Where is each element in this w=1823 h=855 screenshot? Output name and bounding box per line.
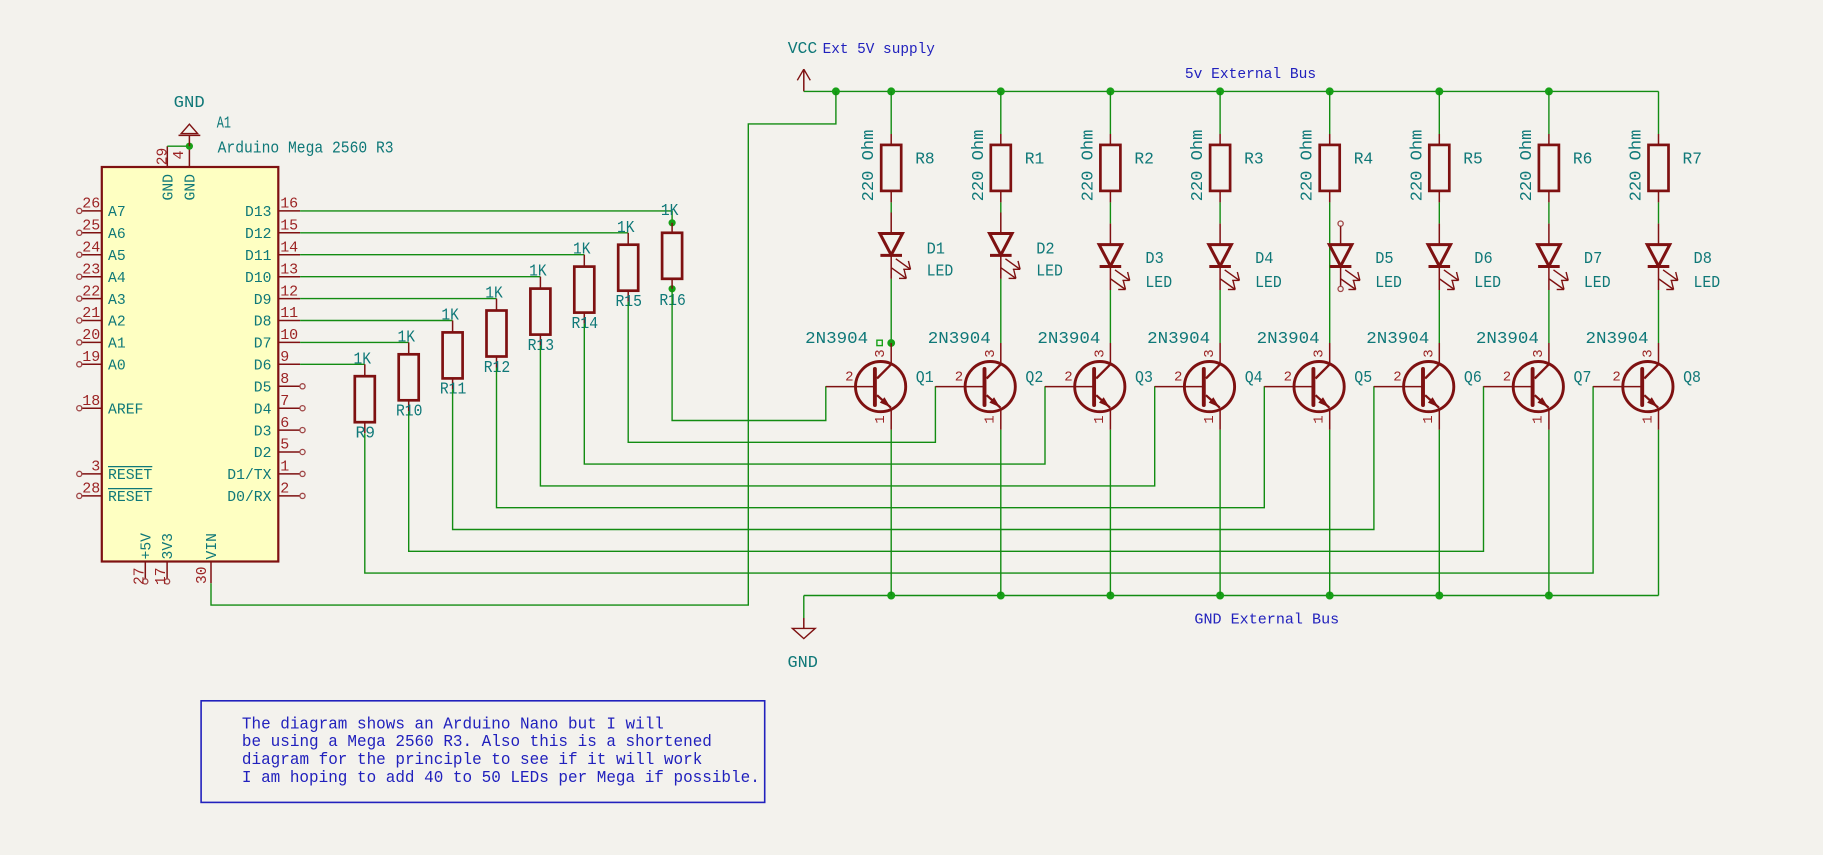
svg-text:8: 8 xyxy=(280,371,289,388)
svg-text:Q2: Q2 xyxy=(1025,369,1043,388)
svg-text:2N3904: 2N3904 xyxy=(928,330,991,349)
svg-text:4: 4 xyxy=(171,151,188,160)
svg-text:1K: 1K xyxy=(661,202,679,221)
transistor Q4 2N3904 xyxy=(1147,330,1263,430)
ground GND (bottom) xyxy=(788,618,818,673)
svg-text:3: 3 xyxy=(873,349,889,357)
svg-text:3: 3 xyxy=(1202,349,1218,357)
wire R16 to Q1 base xyxy=(672,289,826,421)
svg-text:2N3904: 2N3904 xyxy=(1037,330,1100,349)
svg-text:16: 16 xyxy=(280,196,298,213)
svg-text:9: 9 xyxy=(280,349,289,366)
LED D6 xyxy=(1428,224,1501,293)
svg-text:D2: D2 xyxy=(1036,240,1054,259)
svg-text:LED: LED xyxy=(1255,274,1282,293)
svg-text:D4: D4 xyxy=(254,401,272,418)
LED D4 xyxy=(1209,224,1282,293)
svg-text:1: 1 xyxy=(1531,415,1547,423)
svg-text:1K: 1K xyxy=(573,241,591,260)
svg-text:D13: D13 xyxy=(245,204,272,221)
svg-text:D5: D5 xyxy=(254,380,272,397)
svg-text:28: 28 xyxy=(82,481,100,498)
wire D3 to Q3 collector xyxy=(1109,290,1111,343)
svg-text:1: 1 xyxy=(873,415,889,423)
wire D6 to Q6 collector xyxy=(1438,290,1440,343)
wire D6 to R9 xyxy=(300,363,365,365)
wire bus to R2 xyxy=(1109,91,1111,134)
svg-text:GND: GND xyxy=(788,654,818,673)
svg-text:Q8: Q8 xyxy=(1683,369,1701,388)
svg-text:17: 17 xyxy=(153,568,170,586)
svg-text:220 Ohm: 220 Ohm xyxy=(1408,130,1427,202)
power VCC xyxy=(788,40,818,92)
svg-text:Q6: Q6 xyxy=(1464,369,1482,388)
junction xyxy=(1106,87,1114,95)
svg-text:22: 22 xyxy=(82,283,100,300)
svg-text:1: 1 xyxy=(280,459,289,476)
svg-text:D9: D9 xyxy=(254,292,272,309)
wire R6 to D7 xyxy=(1548,202,1550,223)
svg-text:R4: R4 xyxy=(1354,150,1374,169)
resistor R15 1K xyxy=(615,219,642,312)
wire bus to R7 xyxy=(1658,91,1660,134)
svg-text:R7: R7 xyxy=(1683,150,1703,169)
svg-text:1: 1 xyxy=(1202,415,1218,423)
resistor R13 1K xyxy=(528,263,555,356)
LED D3 xyxy=(1099,224,1172,293)
svg-text:3: 3 xyxy=(1092,349,1108,357)
svg-text:10: 10 xyxy=(280,327,298,344)
svg-text:2: 2 xyxy=(1064,369,1072,385)
LED D1 xyxy=(880,213,953,282)
svg-text:220 Ohm: 220 Ohm xyxy=(1518,130,1537,202)
svg-text:220 Ohm: 220 Ohm xyxy=(1628,130,1647,202)
wire bus to R5 xyxy=(1438,91,1440,134)
wire Q1 emitter to GND bus xyxy=(890,430,892,596)
svg-text:3: 3 xyxy=(1531,349,1547,357)
IC pin 30 VIN xyxy=(194,533,221,584)
IC A1 Arduino Mega 2560 R3 xyxy=(102,115,394,562)
wire D10 to R13 xyxy=(300,276,540,278)
svg-text:2N3904: 2N3904 xyxy=(805,330,868,349)
svg-text:Q4: Q4 xyxy=(1245,369,1263,388)
junction xyxy=(1216,87,1224,95)
svg-text:I am hoping to add 40 to 50 LE: I am hoping to add 40 to 50 LEDs per Meg… xyxy=(242,769,760,788)
svg-text:220 Ohm: 220 Ohm xyxy=(1189,130,1208,202)
svg-text:2N3904: 2N3904 xyxy=(1586,330,1649,349)
svg-text:1K: 1K xyxy=(485,285,503,304)
svg-text:D0/RX: D0/RX xyxy=(227,489,271,506)
svg-text:220 Ohm: 220 Ohm xyxy=(860,130,879,202)
svg-text:2: 2 xyxy=(1393,369,1401,385)
svg-text:1: 1 xyxy=(1312,415,1328,423)
resistor R16 1K xyxy=(659,202,686,311)
wire D2 to Q2 collector xyxy=(1000,279,1002,343)
svg-text:D7: D7 xyxy=(254,336,272,353)
svg-text:A5: A5 xyxy=(108,248,126,265)
svg-text:be using a Mega 2560 R3. Also: be using a Mega 2560 R3. Also this is a … xyxy=(242,733,712,752)
svg-text:29: 29 xyxy=(154,148,171,166)
svg-text:RESET: RESET xyxy=(108,489,152,506)
svg-text:A7: A7 xyxy=(108,204,126,221)
wire R12 to Q5 base xyxy=(497,368,1265,508)
svg-text:D3: D3 xyxy=(1145,250,1163,269)
svg-text:D3: D3 xyxy=(254,423,272,440)
svg-text:25: 25 xyxy=(82,218,100,235)
svg-text:2N3904: 2N3904 xyxy=(1366,330,1429,349)
wire R2 to D3 xyxy=(1109,202,1111,223)
IC pin 18 AREF xyxy=(77,393,144,419)
svg-text:15: 15 xyxy=(280,218,298,235)
wire bus to R6 xyxy=(1548,91,1550,134)
svg-text:D4: D4 xyxy=(1255,250,1273,269)
svg-text:1K: 1K xyxy=(354,350,372,369)
LED D5 xyxy=(1329,221,1402,293)
wire Q3 emitter to GND bus xyxy=(1109,430,1111,596)
wire D9 to R12 xyxy=(300,298,496,300)
svg-text:LED: LED xyxy=(1694,274,1721,293)
wire D13 to R16 xyxy=(300,210,672,212)
svg-text:2: 2 xyxy=(280,481,289,498)
svg-text:26: 26 xyxy=(82,196,100,213)
svg-text:VCC: VCC xyxy=(788,40,818,59)
wire R1 to D2 xyxy=(1000,202,1002,212)
transistor Q6 2N3904 xyxy=(1366,330,1482,430)
wire D1 to Q1 collector xyxy=(890,279,892,343)
svg-text:27: 27 xyxy=(131,568,148,586)
IC pin 3 RESET xyxy=(77,459,153,485)
svg-text:3: 3 xyxy=(1641,349,1657,357)
svg-text:R6: R6 xyxy=(1573,150,1593,169)
resistor R9 1K xyxy=(354,350,376,443)
junction xyxy=(887,87,895,95)
resistor R11 1K xyxy=(440,307,467,400)
svg-text:Q5: Q5 xyxy=(1354,369,1372,388)
wire D7 to Q7 collector xyxy=(1548,290,1550,343)
wire bus to R1 xyxy=(1000,91,1002,134)
svg-text:24: 24 xyxy=(82,239,100,256)
wire pin29 to pin4 xyxy=(167,145,189,147)
wire D11 to R14 xyxy=(300,254,584,256)
junction xyxy=(997,592,1005,600)
svg-text:D8: D8 xyxy=(1694,250,1712,269)
svg-text:R1: R1 xyxy=(1025,150,1045,169)
svg-text:11: 11 xyxy=(280,305,298,322)
ground GND (top) xyxy=(174,94,205,146)
svg-text:1: 1 xyxy=(983,415,999,423)
wire Q8 emitter to GND bus xyxy=(1658,430,1660,596)
resistor R8 220 Ohm xyxy=(860,130,935,203)
wire D8 to Q8 collector xyxy=(1658,290,1660,343)
IC left pins A7-A0 xyxy=(77,196,126,375)
svg-text:2: 2 xyxy=(1503,369,1511,385)
resistor R4 220 Ohm xyxy=(1299,130,1374,203)
svg-text:A4: A4 xyxy=(108,270,126,287)
wire D8 to R11 xyxy=(300,320,453,322)
svg-text:23: 23 xyxy=(82,261,100,278)
svg-text:220 Ohm: 220 Ohm xyxy=(1079,130,1098,202)
svg-text:+5V: +5V xyxy=(138,533,155,560)
IC pin 29 GND xyxy=(154,146,177,200)
svg-text:1: 1 xyxy=(1421,415,1437,423)
junction xyxy=(997,87,1005,95)
IC pin 4 GND xyxy=(171,146,199,200)
resistor R3 220 Ohm xyxy=(1189,130,1264,203)
svg-text:D11: D11 xyxy=(245,248,272,265)
dangling wire end square xyxy=(877,340,882,345)
svg-text:R8: R8 xyxy=(915,150,935,169)
svg-text:LED: LED xyxy=(1145,274,1172,293)
svg-text:D1: D1 xyxy=(927,240,945,259)
wire R7 to D8 xyxy=(1658,202,1660,223)
svg-text:D1/TX: D1/TX xyxy=(227,467,271,484)
junction xyxy=(1435,592,1443,600)
wire Q2 emitter to GND bus xyxy=(1000,430,1002,596)
wire R10 to Q7 base xyxy=(409,386,1484,551)
svg-text:1: 1 xyxy=(1092,415,1108,423)
junction xyxy=(887,592,895,600)
resistor R7 220 Ohm xyxy=(1628,130,1703,203)
IC pin 28 RESET xyxy=(77,481,153,507)
wire D4 to Q4 collector xyxy=(1219,290,1221,343)
wire VIN to 5v bus xyxy=(211,91,836,605)
IC pin 17 3V3 xyxy=(153,533,177,585)
svg-text:Q3: Q3 xyxy=(1135,369,1153,388)
svg-text:7: 7 xyxy=(280,393,289,410)
svg-text:D12: D12 xyxy=(245,226,272,243)
svg-text:3: 3 xyxy=(1421,349,1437,357)
wire R15 to Q2 base xyxy=(628,302,935,443)
svg-text:220 Ohm: 220 Ohm xyxy=(970,130,989,202)
svg-text:3: 3 xyxy=(91,459,100,476)
svg-text:2: 2 xyxy=(955,369,963,385)
svg-text:AREF: AREF xyxy=(108,401,143,418)
svg-text:LED: LED xyxy=(927,263,954,282)
svg-text:A1: A1 xyxy=(108,336,126,353)
svg-text:A2: A2 xyxy=(108,314,126,331)
wire 5v external bus xyxy=(804,90,1659,92)
svg-text:2N3904: 2N3904 xyxy=(1476,330,1539,349)
junction xyxy=(1106,592,1114,600)
svg-text:3: 3 xyxy=(983,349,999,357)
wire bus to R3 xyxy=(1219,91,1221,134)
svg-text:20: 20 xyxy=(82,327,100,344)
resistor R14 1K xyxy=(572,241,599,334)
svg-text:19: 19 xyxy=(82,349,100,366)
wire R11 to Q6 base xyxy=(453,386,1374,529)
svg-text:A6: A6 xyxy=(108,226,126,243)
wire bus to GND symbol xyxy=(803,596,805,619)
svg-text:VIN: VIN xyxy=(204,533,221,560)
wire R5 to D6 xyxy=(1438,202,1440,223)
svg-text:A3: A3 xyxy=(108,292,126,309)
svg-text:6: 6 xyxy=(280,415,289,432)
svg-text:13: 13 xyxy=(280,261,298,278)
LED D2 xyxy=(990,213,1063,282)
transistor Q1 2N3904 xyxy=(805,330,934,430)
svg-text:5: 5 xyxy=(280,437,289,454)
junction Q1 collector xyxy=(887,339,895,347)
resistor R2 220 Ohm xyxy=(1079,130,1154,203)
resistor R6 220 Ohm xyxy=(1518,130,1593,203)
svg-text:R2: R2 xyxy=(1134,150,1154,169)
junction R16 top xyxy=(669,219,676,226)
svg-text:1: 1 xyxy=(1640,415,1656,423)
svg-text:R5: R5 xyxy=(1463,150,1483,169)
note text box xyxy=(201,701,765,803)
svg-text:1K: 1K xyxy=(617,219,635,238)
resistor R10 1K xyxy=(396,328,423,421)
resistor R1 220 Ohm xyxy=(970,130,1045,203)
svg-text:D8: D8 xyxy=(254,314,272,331)
junction xyxy=(1435,87,1443,95)
svg-text:30: 30 xyxy=(194,567,211,585)
wire D7 to R10 xyxy=(300,341,409,343)
svg-text:R3: R3 xyxy=(1244,150,1264,169)
wire R4 to Q5 collector xyxy=(1329,202,1331,343)
svg-text:Ext 5V supply: Ext 5V supply xyxy=(823,41,935,58)
svg-text:D5: D5 xyxy=(1375,250,1393,269)
svg-text:The diagram shows an Arduino N: The diagram shows an Arduino Nano but I … xyxy=(242,715,664,734)
svg-text:GND: GND xyxy=(182,174,199,201)
wire Q6 emitter to GND bus xyxy=(1438,430,1440,596)
wire GND external bus xyxy=(804,595,1659,597)
svg-text:D7: D7 xyxy=(1584,250,1602,269)
svg-text:2N3904: 2N3904 xyxy=(1147,330,1210,349)
svg-text:GND: GND xyxy=(160,174,177,201)
wire R9 to Q8 base xyxy=(365,386,1593,573)
transistor Q2 2N3904 xyxy=(928,330,1044,430)
svg-text:Arduino Mega 2560 R3: Arduino Mega 2560 R3 xyxy=(218,139,394,158)
wire D12 to R15 xyxy=(300,232,628,234)
svg-text:21: 21 xyxy=(82,305,100,322)
wire R13 to Q4 base xyxy=(540,346,1154,486)
svg-text:1K: 1K xyxy=(529,263,547,282)
wire Q4 emitter to GND bus xyxy=(1219,430,1221,596)
transistor Q8 2N3904 xyxy=(1586,330,1702,430)
IC pin 27 +5V xyxy=(131,533,155,585)
svg-text:18: 18 xyxy=(82,393,100,410)
wire R16 top drop xyxy=(671,211,673,223)
svg-text:2: 2 xyxy=(1612,369,1620,385)
wire bus to R8 xyxy=(890,91,892,134)
svg-text:GND: GND xyxy=(174,94,205,113)
junction xyxy=(1216,592,1224,600)
transistor Q5 2N3904 xyxy=(1257,330,1373,430)
resistor R5 220 Ohm xyxy=(1408,130,1483,203)
svg-text:A1: A1 xyxy=(217,115,231,134)
svg-text:D6: D6 xyxy=(1474,250,1492,269)
svg-text:2: 2 xyxy=(845,369,853,385)
svg-text:LED: LED xyxy=(1474,274,1501,293)
svg-text:14: 14 xyxy=(280,239,298,256)
svg-text:LED: LED xyxy=(1375,274,1402,293)
wire Q7 emitter to GND bus xyxy=(1548,430,1550,596)
svg-text:LED: LED xyxy=(1584,274,1611,293)
svg-text:1K: 1K xyxy=(397,328,415,347)
svg-text:220 Ohm: 220 Ohm xyxy=(1299,130,1318,202)
junction R16 bottom xyxy=(669,285,676,292)
svg-text:D2: D2 xyxy=(254,445,272,462)
wire bus to R4 xyxy=(1329,91,1331,134)
svg-text:RESET: RESET xyxy=(108,467,152,484)
svg-text:2: 2 xyxy=(1174,369,1182,385)
svg-text:3V3: 3V3 xyxy=(160,533,177,560)
resistor R12 1K xyxy=(484,285,511,378)
svg-text:12: 12 xyxy=(280,283,298,300)
svg-text:D6: D6 xyxy=(254,358,272,375)
LED D7 xyxy=(1538,224,1611,293)
junction xyxy=(1545,87,1553,95)
svg-text:diagram for the principle to s: diagram for the principle to see if it w… xyxy=(242,751,702,770)
svg-text:2: 2 xyxy=(1284,369,1292,385)
svg-text:Q7: Q7 xyxy=(1574,369,1592,388)
junction xyxy=(1326,87,1334,95)
svg-text:D10: D10 xyxy=(245,270,272,287)
junction xyxy=(1326,592,1334,600)
svg-text:1K: 1K xyxy=(441,307,459,326)
svg-text:GND External Bus: GND External Bus xyxy=(1194,611,1339,628)
svg-text:5v External Bus: 5v External Bus xyxy=(1185,66,1316,83)
svg-text:A0: A0 xyxy=(108,358,126,375)
wire R3 to D4 xyxy=(1219,202,1221,223)
junction xyxy=(1545,592,1553,600)
wire Q5 emitter to GND bus xyxy=(1329,430,1331,596)
junction VIN branch xyxy=(832,87,840,95)
transistor Q7 2N3904 xyxy=(1476,330,1592,430)
wire R14 to Q3 base xyxy=(584,324,1045,465)
svg-text:2N3904: 2N3904 xyxy=(1257,330,1320,349)
svg-text:Q1: Q1 xyxy=(916,369,934,388)
LED D8 xyxy=(1647,224,1720,293)
wire R8 to D1 xyxy=(890,202,892,212)
junction xyxy=(186,143,193,150)
svg-text:LED: LED xyxy=(1036,263,1063,282)
svg-text:3: 3 xyxy=(1312,349,1328,357)
transistor Q3 2N3904 xyxy=(1037,330,1153,430)
IC right pins D13-D0/RX xyxy=(227,196,305,507)
